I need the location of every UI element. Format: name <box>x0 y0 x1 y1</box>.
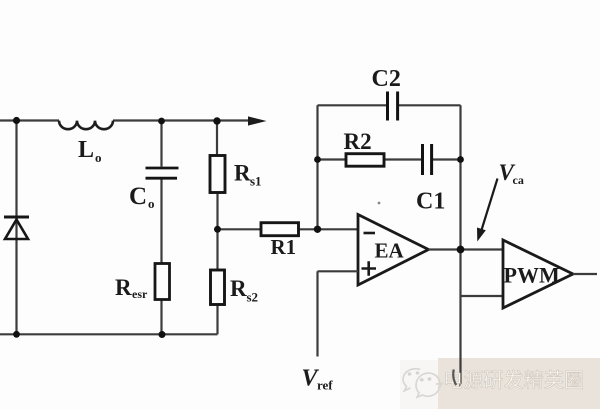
wire feedback left vertical <box>316 105 318 229</box>
wire R2/C1 middle feedback <box>318 158 461 160</box>
capacitor C2 <box>388 92 398 121</box>
capacitor Co <box>146 168 179 178</box>
resistor Rs1 <box>210 156 225 193</box>
svg-text:R2: R2 <box>344 129 372 154</box>
node dot minus input <box>314 226 321 233</box>
svg-text:o: o <box>95 150 102 165</box>
wire PWM lower input <box>461 250 504 389</box>
node Vca arrow <box>482 179 498 231</box>
node dot bottom Resr <box>159 331 166 338</box>
resistor Resr <box>155 264 170 300</box>
resistor R1 <box>261 223 299 236</box>
node dot feedback left upper <box>314 156 321 163</box>
wire Vref vertical <box>316 271 318 356</box>
resistor R2 <box>346 154 384 167</box>
node dot Rs divider <box>214 226 221 233</box>
svg-text:L: L <box>78 137 94 163</box>
wire plus input <box>318 270 359 272</box>
svg-text:esr: esr <box>132 287 148 301</box>
svg-text:C1: C1 <box>416 189 445 215</box>
wire feedback right vertical <box>459 105 461 249</box>
speck artifact <box>378 202 381 205</box>
svg-text:C: C <box>129 183 147 210</box>
wire top rail <box>0 119 250 121</box>
svg-text:ca: ca <box>513 173 524 187</box>
svg-text:R: R <box>234 161 251 186</box>
node dot top-left <box>13 117 20 124</box>
op-amp U1 EA <box>358 215 429 286</box>
svg-text:R1: R1 <box>271 235 297 259</box>
watermark wechat icon <box>403 369 442 398</box>
node dot bottom-left <box>13 331 20 338</box>
wire Co branch <box>160 121 162 334</box>
watermark dark mark <box>453 370 456 386</box>
comparator PWM <box>503 240 573 308</box>
svg-text:PWM: PWM <box>504 263 560 288</box>
node dot Vca <box>457 246 465 254</box>
node dot Rs1 top <box>213 117 220 124</box>
svg-text:电源研发精英圈: 电源研发精英圈 <box>443 369 584 392</box>
node dot Co top <box>158 118 165 125</box>
wire left vertical <box>15 121 17 335</box>
wire minus input <box>218 228 359 230</box>
svg-text:o: o <box>148 196 155 211</box>
resistor Rs2 <box>211 270 225 305</box>
capacitor C1 <box>423 144 432 175</box>
diode D <box>4 216 29 219</box>
svg-text:R: R <box>230 276 247 301</box>
svg-text:EA: EA <box>375 239 405 263</box>
node dot feedback right upper <box>457 156 464 163</box>
wire C2 top feedback <box>318 104 461 106</box>
svg-text:s2: s2 <box>247 290 259 305</box>
svg-text:s1: s1 <box>250 174 262 189</box>
wire bottom rail <box>0 333 218 335</box>
svg-text:R: R <box>115 275 132 300</box>
svg-text:ref: ref <box>317 378 333 393</box>
wire PWM output <box>573 273 597 275</box>
wire Rs branch <box>216 121 219 334</box>
inductor Lo <box>59 121 113 130</box>
wire EA output <box>429 248 504 250</box>
arrow output <box>248 116 267 125</box>
watermark band <box>438 358 600 409</box>
svg-text:C2: C2 <box>372 66 401 92</box>
